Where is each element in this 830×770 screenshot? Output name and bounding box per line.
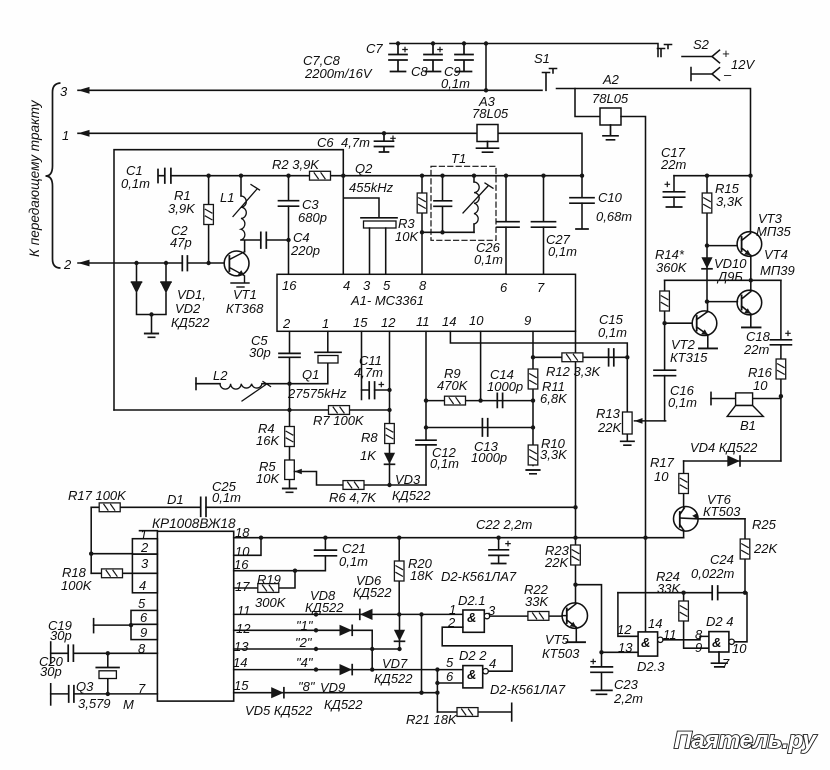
svg-text:17: 17 — [235, 579, 250, 594]
svg-text:Паятель.ру: Паятель.ру — [674, 727, 817, 754]
svg-text:1000p: 1000p — [487, 379, 523, 394]
svg-text:S1: S1 — [534, 51, 550, 66]
svg-text:300K: 300K — [255, 595, 287, 610]
svg-text:&: & — [712, 635, 721, 650]
svg-text:+: + — [722, 46, 730, 61]
svg-text:4: 4 — [343, 278, 350, 293]
svg-text:–: – — [723, 67, 732, 82]
svg-text:R21 18K: R21 18K — [406, 712, 458, 727]
svg-text:6: 6 — [500, 280, 508, 295]
svg-text:30p: 30p — [50, 628, 72, 643]
svg-text:R25: R25 — [752, 517, 777, 532]
svg-text:2: 2 — [140, 540, 149, 555]
svg-text:8: 8 — [138, 641, 146, 656]
svg-text:30p: 30p — [40, 664, 62, 679]
svg-text:КД522: КД522 — [353, 585, 392, 600]
svg-text:4,7m: 4,7m — [341, 135, 370, 150]
svg-text:VD4 КД522: VD4 КД522 — [690, 440, 758, 455]
svg-text:0,1m: 0,1m — [212, 490, 241, 505]
svg-text:T1: T1 — [451, 151, 466, 166]
svg-text:10: 10 — [469, 313, 484, 328]
svg-text:VD3: VD3 — [395, 472, 421, 487]
svg-text:0,1m: 0,1m — [474, 252, 503, 267]
svg-text:10: 10 — [753, 378, 768, 393]
svg-text:15: 15 — [353, 315, 368, 330]
svg-text:КД522: КД522 — [171, 315, 210, 330]
svg-text:Q2: Q2 — [355, 161, 373, 176]
svg-text:680p: 680p — [298, 210, 327, 225]
svg-text:C8: C8 — [411, 64, 428, 79]
svg-text:3,579: 3,579 — [78, 696, 111, 711]
svg-text:D1: D1 — [167, 492, 184, 507]
svg-text:5: 5 — [383, 278, 391, 293]
svg-text:КД522: КД522 — [305, 600, 344, 615]
svg-text:470K: 470K — [437, 378, 469, 393]
svg-text:&: & — [467, 667, 476, 682]
svg-text:11: 11 — [237, 603, 251, 618]
svg-text:A2: A2 — [602, 72, 620, 87]
svg-text:4: 4 — [489, 656, 496, 671]
svg-text:16K: 16K — [256, 433, 280, 448]
svg-text:R7 100K: R7 100K — [313, 413, 365, 428]
svg-text:КД522: КД522 — [392, 488, 431, 503]
svg-text:VT4: VT4 — [764, 247, 788, 262]
svg-text:3: 3 — [363, 278, 371, 293]
svg-text:1: 1 — [62, 128, 69, 143]
svg-text:220p: 220p — [290, 243, 320, 258]
svg-text:КР1008ВЖ18: КР1008ВЖ18 — [152, 516, 236, 531]
svg-text:VT1: VT1 — [233, 287, 257, 302]
svg-text:2: 2 — [63, 257, 72, 272]
svg-text:C6: C6 — [317, 135, 334, 150]
svg-text:7: 7 — [138, 681, 146, 696]
svg-text:4: 4 — [139, 578, 146, 593]
svg-text:22K: 22K — [544, 555, 569, 570]
svg-text:8: 8 — [419, 278, 427, 293]
svg-text:33K: 33K — [657, 581, 681, 596]
svg-text:R17: R17 — [650, 455, 675, 470]
svg-text:D2 2: D2 2 — [459, 648, 487, 663]
svg-text:C10: C10 — [598, 190, 623, 205]
svg-text:R8: R8 — [361, 430, 378, 445]
svg-text:C22 2,2m: C22 2,2m — [476, 517, 533, 532]
svg-text:100K: 100K — [61, 578, 93, 593]
svg-text:C23: C23 — [614, 677, 639, 692]
svg-text:16: 16 — [282, 278, 297, 293]
svg-text:6: 6 — [140, 610, 148, 625]
svg-text:0,1m: 0,1m — [441, 76, 470, 91]
svg-text:M: M — [123, 697, 134, 712]
svg-text:МП39: МП39 — [760, 263, 795, 278]
svg-text:0,1m: 0,1m — [598, 325, 627, 340]
svg-text:D2.1: D2.1 — [458, 593, 485, 608]
svg-text:27575kHz: 27575kHz — [287, 386, 347, 401]
svg-text:L2: L2 — [213, 368, 228, 383]
svg-text:R6 4,7K: R6 4,7K — [329, 490, 377, 505]
svg-text:360K: 360K — [656, 260, 688, 275]
svg-text:30p: 30p — [249, 345, 271, 360]
svg-text:МП35: МП35 — [756, 224, 791, 239]
svg-text:D2-К561ЛА7: D2-К561ЛА7 — [441, 569, 517, 584]
svg-text:2: 2 — [447, 615, 456, 630]
svg-text:3: 3 — [60, 84, 68, 99]
svg-text:0,1m: 0,1m — [430, 456, 459, 471]
svg-text:R12 3,3K: R12 3,3K — [546, 364, 602, 379]
svg-text:11: 11 — [663, 627, 677, 642]
svg-text:D2-К561ЛА7: D2-К561ЛА7 — [490, 682, 566, 697]
svg-text:КТ315: КТ315 — [670, 350, 708, 365]
svg-text:13: 13 — [234, 639, 249, 654]
svg-text:"1": "1" — [296, 618, 314, 633]
svg-text:15: 15 — [234, 678, 249, 693]
svg-text:VD7: VD7 — [382, 656, 408, 671]
svg-text:11: 11 — [416, 314, 430, 329]
svg-text:14: 14 — [442, 314, 456, 329]
svg-text:18K: 18K — [410, 568, 434, 583]
svg-text:47p: 47p — [170, 235, 192, 250]
svg-text:VT5: VT5 — [545, 632, 570, 647]
svg-text:R17 100K: R17 100K — [68, 488, 127, 503]
svg-text:10K: 10K — [256, 471, 280, 486]
svg-text:0,68m: 0,68m — [596, 209, 632, 224]
svg-text:22K: 22K — [597, 420, 622, 435]
svg-text:S2: S2 — [693, 37, 710, 52]
svg-text:КД522: КД522 — [374, 671, 413, 686]
svg-text:A1- МС3361: A1- МС3361 — [350, 293, 424, 308]
svg-text:14: 14 — [648, 616, 662, 631]
svg-text:18: 18 — [235, 525, 250, 540]
svg-text:9: 9 — [140, 625, 147, 640]
svg-text:&: & — [641, 635, 650, 650]
svg-text:5: 5 — [138, 596, 146, 611]
svg-text:16: 16 — [234, 557, 249, 572]
svg-text:12: 12 — [236, 621, 251, 636]
svg-text:9: 9 — [524, 313, 531, 328]
svg-text:"4": "4" — [296, 655, 314, 670]
svg-text:12: 12 — [381, 315, 396, 330]
svg-text:R2 3,9K: R2 3,9K — [272, 157, 320, 172]
svg-text:3: 3 — [488, 603, 496, 618]
svg-text:&: & — [467, 610, 476, 625]
svg-text:3: 3 — [141, 556, 149, 571]
svg-text:C24: C24 — [710, 552, 734, 567]
svg-text:VD1,: VD1, — [177, 287, 206, 302]
svg-text:VD5 КД522: VD5 КД522 — [245, 703, 313, 718]
svg-text:12: 12 — [617, 622, 632, 637]
svg-text:0,1m: 0,1m — [548, 244, 577, 259]
svg-text:Q3: Q3 — [76, 679, 94, 694]
svg-text:1000p: 1000p — [471, 450, 507, 465]
svg-text:9: 9 — [695, 640, 702, 655]
svg-text:0,1m: 0,1m — [668, 395, 697, 410]
svg-text:К передающему тракту: К передающему тракту — [27, 99, 42, 257]
svg-text:0,1m: 0,1m — [339, 554, 368, 569]
svg-text:78L05: 78L05 — [592, 91, 629, 106]
svg-text:10: 10 — [654, 469, 669, 484]
svg-text:12V: 12V — [731, 57, 755, 72]
svg-text:3,3K: 3,3K — [540, 447, 568, 462]
svg-text:22m: 22m — [743, 342, 769, 357]
svg-text:6,8K: 6,8K — [540, 391, 568, 406]
svg-text:1: 1 — [322, 316, 329, 331]
svg-text:КТ503: КТ503 — [703, 504, 741, 519]
svg-text:22K: 22K — [753, 541, 778, 556]
svg-text:КТ503: КТ503 — [542, 646, 580, 661]
svg-text:2,2m: 2,2m — [613, 691, 643, 706]
svg-text:1K: 1K — [360, 448, 377, 463]
svg-text:7: 7 — [537, 280, 545, 295]
svg-text:Д9Б: Д9Б — [716, 269, 743, 284]
svg-text:B1: B1 — [740, 418, 756, 433]
svg-text:D2 4: D2 4 — [706, 614, 733, 629]
svg-text:L1: L1 — [220, 190, 234, 205]
svg-text:455kHz: 455kHz — [349, 180, 394, 195]
svg-text:3,9K: 3,9K — [168, 201, 196, 216]
svg-text:6: 6 — [446, 669, 454, 684]
svg-text:R13: R13 — [596, 406, 621, 421]
svg-text:R19: R19 — [257, 572, 281, 587]
svg-text:22m: 22m — [660, 157, 686, 172]
svg-text:3,3K: 3,3K — [716, 194, 744, 209]
svg-text:10: 10 — [732, 641, 747, 656]
svg-text:КД522: КД522 — [324, 697, 363, 712]
svg-text:VD9: VD9 — [320, 680, 345, 695]
svg-text:Q1: Q1 — [302, 367, 319, 382]
svg-text:14: 14 — [233, 655, 247, 670]
svg-text:4,7m: 4,7m — [354, 365, 383, 380]
svg-text:D2.3: D2.3 — [637, 659, 665, 674]
svg-text:2200m/16V: 2200m/16V — [304, 66, 373, 81]
svg-text:10K: 10K — [395, 229, 419, 244]
svg-text:0,022m: 0,022m — [691, 566, 735, 581]
svg-text:КТ368: КТ368 — [226, 301, 264, 316]
svg-text:"2": "2" — [295, 635, 313, 650]
svg-text:"8": "8" — [298, 679, 316, 694]
svg-text:7: 7 — [722, 656, 730, 671]
svg-text:C7: C7 — [366, 41, 383, 56]
svg-text:5: 5 — [446, 655, 454, 670]
svg-text:VD2: VD2 — [175, 301, 201, 316]
svg-text:78L05: 78L05 — [472, 106, 509, 121]
svg-text:2: 2 — [282, 316, 291, 331]
svg-text:13: 13 — [618, 640, 633, 655]
svg-text:0,1m: 0,1m — [121, 176, 150, 191]
svg-text:33K: 33K — [525, 594, 549, 609]
